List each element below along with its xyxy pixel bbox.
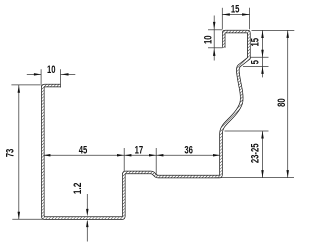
dim 15 right: line (262, 31, 264, 58)
dim 80: extension lines (252, 29, 295, 31)
arrow down 15 right (261, 50, 264, 58)
arrows at x=156.2 bowtie (149, 154, 156, 157)
arrow down 10 hook (213, 22, 216, 30)
dim 1.2: leader lines (86, 194, 88, 212)
dim 73: extension lines (11, 84, 40, 86)
profile cross-section band: outer edges (43, 32, 249, 219)
arrow up 23-25 (261, 131, 264, 139)
dim 15 top: line (222, 14, 249, 16)
arrow down 23-25 (261, 170, 264, 178)
arrow up 80 (286, 30, 289, 38)
arrow right 36 (213, 154, 220, 157)
dim 73: line (18, 85, 20, 219)
dim 10 top-left: tails (27, 73, 41, 75)
dims 45/17/36: extension lines (123, 148, 125, 171)
svg-text:17: 17 (135, 144, 144, 157)
arrow right 15 top (242, 13, 250, 16)
arrow left at 10 top-left (61, 73, 68, 76)
arrow up 1.2 (86, 220, 89, 228)
arrow left 45 (43, 154, 50, 157)
dim 23-25: extension line (225, 130, 269, 132)
svg-text:73: 73 (4, 148, 17, 157)
arrow up 5 below (261, 66, 264, 74)
dim 10 hook: line (213, 16, 215, 61)
svg-text:15: 15 (231, 3, 240, 16)
svg-text:10: 10 (202, 35, 215, 44)
svg-text:45: 45 (79, 144, 88, 157)
arrow up 73 (18, 85, 21, 93)
dims 45/17/36: chain line (43, 154, 220, 156)
dim 10 hook: extension lines (208, 29, 222, 31)
arrow right at 10 top-left (34, 73, 41, 76)
dim 80: line (287, 31, 289, 178)
arrow up 10 hook (213, 48, 216, 56)
svg-text:5: 5 (249, 60, 262, 65)
svg-text:1.2: 1.2 (72, 182, 85, 194)
dim 5: line and tail (262, 57, 264, 66)
svg-text:15: 15 (249, 37, 262, 46)
arrow down 1.2 (86, 209, 89, 217)
svg-text:80: 80 (276, 98, 289, 107)
arrow down 80 (286, 170, 289, 178)
arrow down 73 (18, 212, 21, 220)
dim 23-25: line (262, 131, 264, 177)
svg-text:23-25: 23-25 (249, 143, 262, 163)
arrow up 15 right (261, 31, 264, 39)
arrow left 15 top (222, 13, 230, 16)
dim 15 top: extension lines (221, 8, 223, 30)
profile band interior white (43, 32, 249, 219)
dim 5: extension line (243, 65, 269, 67)
svg-text:10: 10 (47, 64, 56, 77)
dim 10 top-left: extension lines (40, 69, 42, 85)
svg-text:36: 36 (184, 144, 193, 157)
dim 15 right: extension line (251, 56, 269, 58)
arrows at x=124 bowtie (117, 154, 124, 157)
